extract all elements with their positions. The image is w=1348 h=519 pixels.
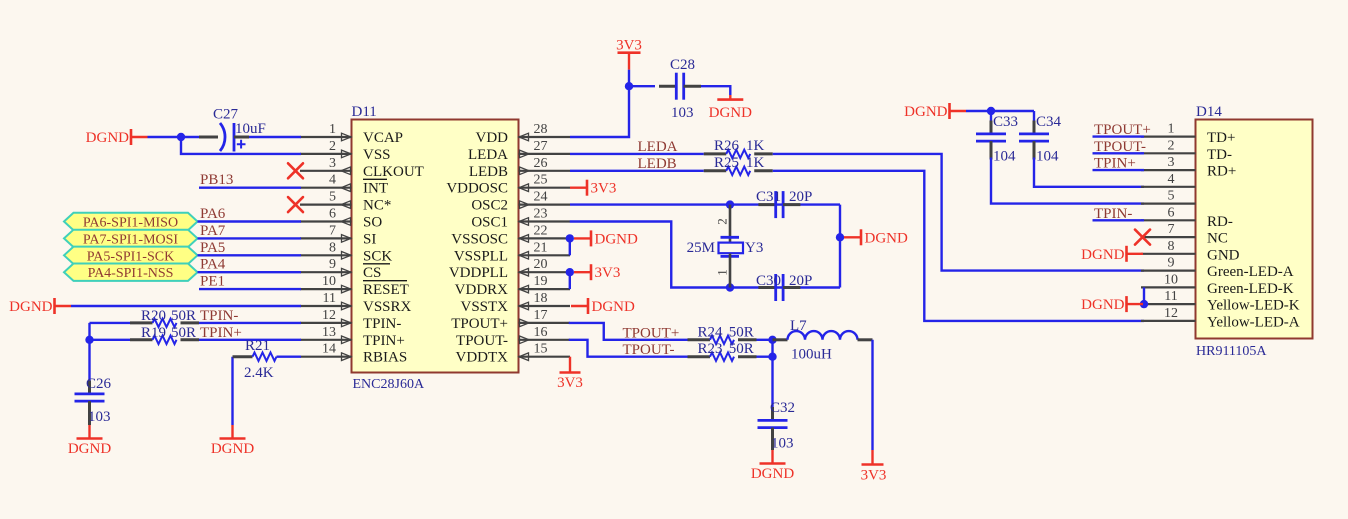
svg-text:50R: 50R (171, 308, 196, 324)
svg-text:11: 11 (1164, 289, 1177, 304)
pin 18 arrow (519, 302, 529, 310)
svg-text:DGND: DGND (865, 230, 908, 246)
capacitor C31 20P (758, 191, 800, 218)
pin 12 line (D14) (1141, 320, 1196, 322)
svg-text:PA6-SPI1-MISO: PA6-SPI1-MISO (83, 216, 178, 231)
svg-text:Y3: Y3 (745, 240, 763, 256)
wire TPOUT+ stub to D14 pin 1 (1093, 135, 1145, 137)
wire vertical to C26 (88, 323, 90, 391)
svg-text:VDD: VDD (476, 130, 509, 146)
svg-text:LEDA: LEDA (638, 139, 678, 155)
pin 18 line (D11 VSSTX) (519, 305, 571, 307)
svg-text:INT: INT (363, 181, 388, 197)
svg-text:PB13: PB13 (200, 172, 233, 188)
pin 2 arrow (342, 150, 352, 158)
svg-text:CS: CS (363, 265, 381, 281)
svg-text:2: 2 (1168, 138, 1175, 153)
overline INT (363, 178, 387, 180)
pin 11 line (D11 VSSRX) (300, 305, 352, 307)
svg-text:1: 1 (715, 269, 730, 276)
pin 10 line (D11 RESET) (300, 288, 352, 290)
svg-text:C28: C28 (670, 57, 695, 73)
svg-text:ENC28J60A: ENC28J60A (353, 377, 425, 392)
wire port to pin 7 (198, 237, 302, 239)
pin 21 arrow (519, 252, 529, 260)
pin 16 line (D11 TPOUT-) (519, 339, 571, 341)
svg-text:DGND: DGND (1081, 297, 1124, 313)
power symbol 3V3 (above C28) (616, 38, 642, 70)
overline CS (363, 263, 390, 265)
svg-text:DGND: DGND (751, 466, 794, 482)
wire pin26 LEDB to R25 (570, 170, 704, 172)
pin 24 line (D11 OSC2) (519, 204, 571, 206)
svg-text:5: 5 (1168, 189, 1175, 204)
wire crystal right rail (839, 205, 841, 288)
pin 23 line (D11 OSC1) (519, 220, 571, 222)
svg-text:SO: SO (363, 215, 382, 231)
power symbol DGND (below C32) (751, 450, 794, 482)
power symbol DGND (pin22 VSSOSC) (574, 230, 638, 247)
svg-text:22: 22 (534, 223, 548, 238)
svg-text:50R: 50R (171, 325, 196, 341)
svg-text:PA7-SPI1-MOSI: PA7-SPI1-MOSI (83, 232, 179, 247)
pin 11 arrow (342, 302, 352, 310)
IC U/D11 ENC28J60A body (352, 120, 519, 373)
svg-text:100uH: 100uH (791, 347, 832, 363)
junction pin22 (566, 234, 574, 242)
wire PE1 to pin10 RESET (199, 288, 301, 290)
junction crystal DGND (836, 233, 844, 241)
pin 8 line (D11 SCK) (300, 254, 352, 256)
power symbol 3V3 (below pin15) (557, 357, 583, 391)
wire R21 to pin14 RBIAS (277, 356, 302, 358)
power symbol DGND (right of C28) (709, 95, 752, 121)
wire pin17 TPOUT+ to R24 (569, 323, 688, 340)
svg-text:26: 26 (534, 156, 548, 171)
svg-text:TPOUT+: TPOUT+ (451, 316, 508, 332)
svg-text:104: 104 (1036, 149, 1059, 165)
svg-text:R23: R23 (698, 341, 723, 357)
wire to R20 (90, 322, 131, 324)
svg-text:R21: R21 (245, 338, 270, 354)
junction C33 (987, 107, 995, 115)
wire R21 to ground (231, 357, 233, 425)
pin 2 line (D11 VSS) (300, 153, 352, 155)
svg-text:21: 21 (534, 240, 548, 255)
svg-text:Yellow-LED-K: Yellow-LED-K (1207, 298, 1300, 314)
svg-text:2: 2 (329, 139, 336, 154)
pin 10 line (D14) (1141, 286, 1196, 288)
svg-text:RD+: RD+ (1207, 164, 1236, 180)
wire node to C28 (629, 85, 655, 87)
svg-text:PA7: PA7 (200, 223, 226, 239)
svg-text:RD-: RD- (1207, 214, 1233, 230)
svg-text:LEDA: LEDA (468, 147, 508, 163)
svg-text:VSSRX: VSSRX (363, 299, 412, 315)
wire R26 to D14 pin9 Green-LED-A (773, 154, 1144, 271)
svg-text:103: 103 (88, 409, 111, 425)
svg-text:TPIN-: TPIN- (200, 308, 238, 324)
wire L7 to 3V3 (871, 340, 873, 450)
svg-text:TPIN-: TPIN- (363, 316, 401, 332)
svg-text:1: 1 (1168, 122, 1175, 137)
svg-text:5: 5 (329, 190, 336, 205)
pin 15 arrow (519, 353, 529, 361)
wire DGND to C33 C34 (966, 110, 1034, 112)
svg-text:TD-: TD- (1207, 147, 1232, 163)
pin 24 arrow (520, 201, 530, 209)
wire pin24 OSC2 rail (570, 203, 840, 205)
svg-text:PA6: PA6 (200, 206, 226, 222)
junction crystal bottom (726, 283, 734, 291)
svg-text:CLKOUT: CLKOUT (363, 164, 424, 180)
svg-text:12: 12 (1164, 306, 1178, 321)
svg-text:PA4: PA4 (200, 257, 226, 273)
svg-text:Yellow-LED-A: Yellow-LED-A (1207, 314, 1300, 330)
overline RESET (363, 280, 407, 282)
svg-text:NC*: NC* (363, 198, 391, 214)
pin 21 line (D11 VSSPLL) (519, 254, 571, 256)
wire pin16 TPOUT- to R23 (569, 340, 688, 357)
wire TPIN- stub to D14 pin 6 (1093, 219, 1145, 221)
resistor R19 50R (130, 336, 199, 344)
svg-text:D11: D11 (352, 104, 377, 120)
svg-text:20P: 20P (789, 189, 812, 205)
svg-text:LEDB: LEDB (469, 164, 508, 180)
svg-text:4: 4 (1168, 172, 1175, 187)
svg-text:RBIAS: RBIAS (363, 350, 407, 366)
junction D14 pin11 (1140, 300, 1148, 308)
svg-text:OSC1: OSC1 (471, 215, 508, 231)
svg-text:TPOUT-: TPOUT- (456, 333, 508, 349)
wire D14 pin10-pin11 join (1143, 287, 1145, 304)
power symbol 3V3 (below L7) (861, 450, 887, 484)
junction L7 node (768, 336, 776, 344)
pin 15 line (D11 VDDTX) (519, 356, 571, 358)
svg-text:R24: R24 (698, 324, 724, 340)
svg-text:DGND: DGND (86, 130, 129, 146)
svg-text:104: 104 (993, 149, 1016, 165)
svg-text:7: 7 (1168, 222, 1175, 237)
wire port to pin 8 (198, 254, 302, 256)
svg-text:C32: C32 (770, 400, 795, 416)
pin 3 line (D14) (1141, 169, 1196, 171)
svg-text:C26: C26 (86, 376, 112, 392)
svg-text:11: 11 (323, 291, 336, 306)
pin 19 line (D11 VDDRX) (519, 288, 571, 290)
wire TPIN+ stub to D14 pin 3 (1093, 169, 1145, 171)
resistor R26 1K (704, 150, 773, 158)
svg-text:C31: C31 (756, 189, 781, 205)
svg-text:PA5: PA5 (200, 240, 225, 256)
svg-text:GND: GND (1207, 247, 1240, 263)
svg-text:4: 4 (329, 173, 336, 188)
pin 25 line (D11 VDDOSC) (519, 187, 571, 189)
inductor L7 100uH (773, 331, 873, 340)
pin 20 line (D11 VDDPLL) (519, 271, 571, 273)
pin 7 arrow (342, 235, 352, 243)
power symbol 3V3 (pin20 VDDPLL) (574, 264, 620, 281)
svg-text:8: 8 (1168, 239, 1175, 254)
resistor R24 50R (688, 336, 757, 344)
svg-text:Green-LED-A: Green-LED-A (1207, 264, 1294, 280)
pin 26 arrow (520, 167, 530, 175)
pin 8 line (D14) (1141, 253, 1196, 255)
pin 16 arrow (520, 336, 530, 344)
power symbol 3V3 (pin25 VDDOSC) (570, 180, 616, 197)
svg-text:TPIN+: TPIN+ (363, 333, 405, 349)
port PA4-SPI1-NSS (64, 264, 198, 281)
svg-text:DGND: DGND (904, 104, 947, 120)
svg-text:VSSOSC: VSSOSC (451, 231, 508, 247)
pin 25 arrow (519, 184, 529, 192)
svg-text:24: 24 (534, 190, 548, 205)
wire R25 to D14 pin12 Yellow-LED-A (773, 171, 1144, 321)
svg-text:20P: 20P (789, 273, 812, 289)
svg-text:SI: SI (363, 231, 376, 247)
capacitor C32 103 (758, 407, 788, 450)
wire TPOUT- stub to D14 pin 2 (1093, 152, 1145, 154)
pin 5 line (D14) (1141, 203, 1196, 205)
lead R21 left (233, 355, 253, 358)
pin 26 line (D11 LEDB) (519, 170, 571, 172)
svg-text:DGND: DGND (211, 441, 254, 457)
pin 13 line (D11 TPIN+) (300, 339, 352, 341)
svg-text:VSSTX: VSSTX (460, 299, 508, 315)
connector D14 HR911105A body (1196, 120, 1313, 339)
svg-text:RESET: RESET (363, 282, 409, 298)
svg-text:6: 6 (329, 207, 336, 222)
svg-text:VSS: VSS (363, 147, 391, 163)
svg-text:C34: C34 (1036, 114, 1062, 130)
no-connect X pin5 (288, 197, 303, 212)
capacitor C34 104 (1019, 121, 1049, 160)
capacitor C28 103 (659, 73, 701, 100)
svg-text:NC: NC (1207, 231, 1228, 247)
pin 7 line (D11 SI) (300, 237, 352, 239)
pin 9 line (D11 CS) (300, 271, 352, 273)
pin 6 arrow (341, 218, 351, 226)
no-connect X D14 pin7 (1135, 230, 1150, 245)
svg-text:1K: 1K (746, 138, 765, 154)
wire pin22-pin21 join (569, 238, 571, 255)
wire port to pin 6 (198, 220, 302, 222)
svg-text:8: 8 (329, 240, 336, 255)
svg-text:103: 103 (671, 105, 694, 121)
svg-text:27: 27 (534, 139, 548, 154)
pin 14 arrow (342, 353, 352, 361)
capacitor C33 104 (976, 121, 1006, 160)
svg-text:17: 17 (534, 308, 548, 323)
junction crystal top (726, 200, 734, 208)
wire C34 to D14 pin4 (1034, 158, 1144, 187)
pin 22 arrow (519, 235, 529, 243)
junction C32 node (768, 353, 776, 361)
power symbol DGND (far left) (9, 298, 71, 315)
svg-text:PE1: PE1 (200, 274, 225, 290)
pin 17 arrow (520, 319, 530, 327)
svg-text:3V3: 3V3 (591, 181, 617, 197)
svg-text:L7: L7 (790, 318, 807, 334)
svg-text:R19: R19 (141, 325, 166, 341)
svg-text:15: 15 (534, 342, 548, 357)
wire node down to C32 (771, 340, 773, 417)
power symbol DGND (below C26) (68, 425, 111, 457)
wire C33 top (990, 111, 992, 121)
wire DGND to C27 (148, 136, 200, 138)
svg-text:14: 14 (322, 342, 336, 357)
svg-text:50R: 50R (729, 341, 754, 357)
svg-text:Green-LED-K: Green-LED-K (1207, 281, 1294, 297)
svg-text:10uF: 10uF (235, 121, 266, 137)
pin 1 line (D14) (1141, 136, 1196, 138)
junction R19 branch (85, 336, 93, 344)
wire pin28 VDD to 3V3 node (570, 86, 629, 137)
svg-text:R26: R26 (714, 138, 740, 154)
junction pin20 (566, 268, 574, 276)
power symbol DGND (left of C27) (86, 129, 148, 146)
junction C27/VSS (177, 133, 185, 141)
svg-text:10: 10 (322, 274, 336, 289)
capacitor C27 10uF (polarized) (199, 123, 249, 152)
pin 3 line (D11 CLKOUT) (300, 170, 352, 172)
svg-text:103: 103 (771, 436, 794, 452)
pin 17 line (D11 TPOUT+) (519, 322, 571, 324)
wire C27 to pin1 VCAP (249, 136, 301, 138)
svg-text:25M: 25M (687, 240, 715, 256)
pin 11 line (D14) (1141, 303, 1196, 305)
resistor R21 2.4K (253, 353, 277, 361)
svg-text:DGND: DGND (1081, 247, 1124, 263)
svg-text:VDDTX: VDDTX (456, 350, 509, 366)
power symbol DGND (crystal ground) (844, 229, 908, 246)
wire C28 to DGND (701, 86, 730, 95)
pin 13 arrow (342, 336, 352, 344)
wire pin27 LEDA to R26 (570, 153, 704, 155)
svg-text:28: 28 (534, 122, 548, 137)
port PA6-SPI1-MISO (64, 213, 198, 230)
pin 4 line (D11 INT) (300, 187, 352, 189)
wire pin23 OSC1 rail (570, 222, 840, 288)
svg-text:6: 6 (1168, 205, 1175, 220)
pin 4 line (D14) (1141, 186, 1196, 188)
wire C33 to D14 pin5 (991, 158, 1144, 204)
pin 2 line (D14) (1141, 152, 1196, 154)
wire port to pin 9 (198, 271, 302, 273)
pin 1 line (D11 VCAP) (300, 136, 352, 138)
power symbol DGND (below R21) (211, 425, 254, 457)
wire to R19 (90, 339, 131, 341)
svg-text:HR911105A: HR911105A (1196, 344, 1267, 359)
capacitor C26 103 (75, 381, 105, 426)
svg-text:TPOUT+: TPOUT+ (623, 325, 680, 341)
pin 1 arrow (342, 133, 352, 141)
pin 14 line (D11 RBIAS) (300, 356, 352, 358)
pin 5 line (D11 NC*) (300, 204, 352, 206)
svg-text:9: 9 (1168, 256, 1175, 271)
svg-text:VDDOSC: VDDOSC (446, 181, 508, 197)
svg-text:1: 1 (329, 122, 336, 137)
pin 22 line (D11 VSSOSC) (519, 237, 571, 239)
pin 10 arrow (342, 285, 352, 293)
power symbol DGND (D14 pin11) (1081, 296, 1143, 313)
svg-text:3: 3 (1168, 155, 1175, 170)
svg-text:2.4K: 2.4K (244, 365, 274, 381)
pin 6 line (D11 SO) (300, 220, 352, 222)
port PA7-SPI1-MOSI (64, 230, 198, 247)
svg-text:C33: C33 (993, 114, 1018, 130)
svg-text:2: 2 (715, 218, 730, 225)
svg-text:DGND: DGND (9, 299, 52, 315)
svg-text:C30: C30 (756, 273, 781, 289)
pin 20 arrow (519, 268, 529, 276)
pin 28 line (D11 VDD) (519, 136, 571, 138)
svg-text:16: 16 (534, 325, 548, 340)
svg-text:13: 13 (322, 325, 336, 340)
wire R23 to C32 node (757, 356, 773, 358)
svg-text:SCK: SCK (363, 248, 392, 264)
svg-text:3V3: 3V3 (557, 375, 583, 391)
wire R24 to L7 node (757, 339, 773, 341)
pin 4 arrow (341, 184, 351, 192)
pin 28 arrow (519, 133, 529, 141)
svg-text:18: 18 (534, 291, 548, 306)
pin 19 arrow (519, 285, 529, 293)
no-connect X pin3 (288, 163, 303, 178)
svg-text:VDDRX: VDDRX (455, 282, 509, 298)
svg-text:20: 20 (534, 257, 548, 272)
svg-text:OSC2: OSC2 (471, 198, 508, 214)
svg-text:DGND: DGND (592, 299, 635, 315)
wire junction to pin2 VSS (181, 137, 301, 154)
svg-text:12: 12 (322, 308, 336, 323)
svg-text:7: 7 (329, 223, 336, 238)
pin 9 arrow (342, 268, 352, 276)
svg-text:23: 23 (534, 207, 548, 222)
resistor R23 50R (688, 353, 757, 361)
svg-text:VDDPLL: VDDPLL (449, 265, 508, 281)
svg-text:PA5-SPI1-SCK: PA5-SPI1-SCK (87, 249, 174, 264)
pin 6 line (D14) (1141, 219, 1196, 221)
svg-text:LEDB: LEDB (638, 156, 677, 172)
pin 3 arrow (341, 167, 351, 175)
wire C34 top (1033, 111, 1035, 121)
power symbol DGND (D14 pin8) (1081, 246, 1143, 263)
svg-text:R20: R20 (141, 308, 166, 324)
svg-text:DGND: DGND (709, 105, 752, 121)
pin 5 arrow (341, 201, 351, 209)
svg-text:9: 9 (329, 257, 336, 272)
wire DGND to pin11 VSSRX (71, 305, 301, 307)
svg-text:50R: 50R (729, 324, 754, 340)
wire R19 to pin13 TPIN+ (199, 339, 301, 341)
power symbol DGND (top right) (904, 103, 966, 120)
junction 3V3 node (625, 82, 633, 90)
svg-text:DGND: DGND (595, 231, 638, 247)
svg-text:VSSPLL: VSSPLL (454, 248, 508, 264)
capacitor C30 20P (758, 274, 800, 301)
svg-text:10: 10 (1164, 272, 1178, 287)
svg-text:25: 25 (534, 173, 548, 188)
svg-text:TPOUT-: TPOUT- (623, 342, 675, 358)
svg-text:3V3: 3V3 (595, 265, 621, 281)
svg-text:3V3: 3V3 (616, 38, 642, 54)
wire pin20-pin19 join (569, 272, 571, 289)
pin 27 line (D11 LEDA) (519, 153, 571, 155)
pin 12 arrow (342, 319, 352, 327)
svg-text:19: 19 (534, 274, 548, 289)
wire R20 to pin12 TPIN- (199, 322, 301, 324)
